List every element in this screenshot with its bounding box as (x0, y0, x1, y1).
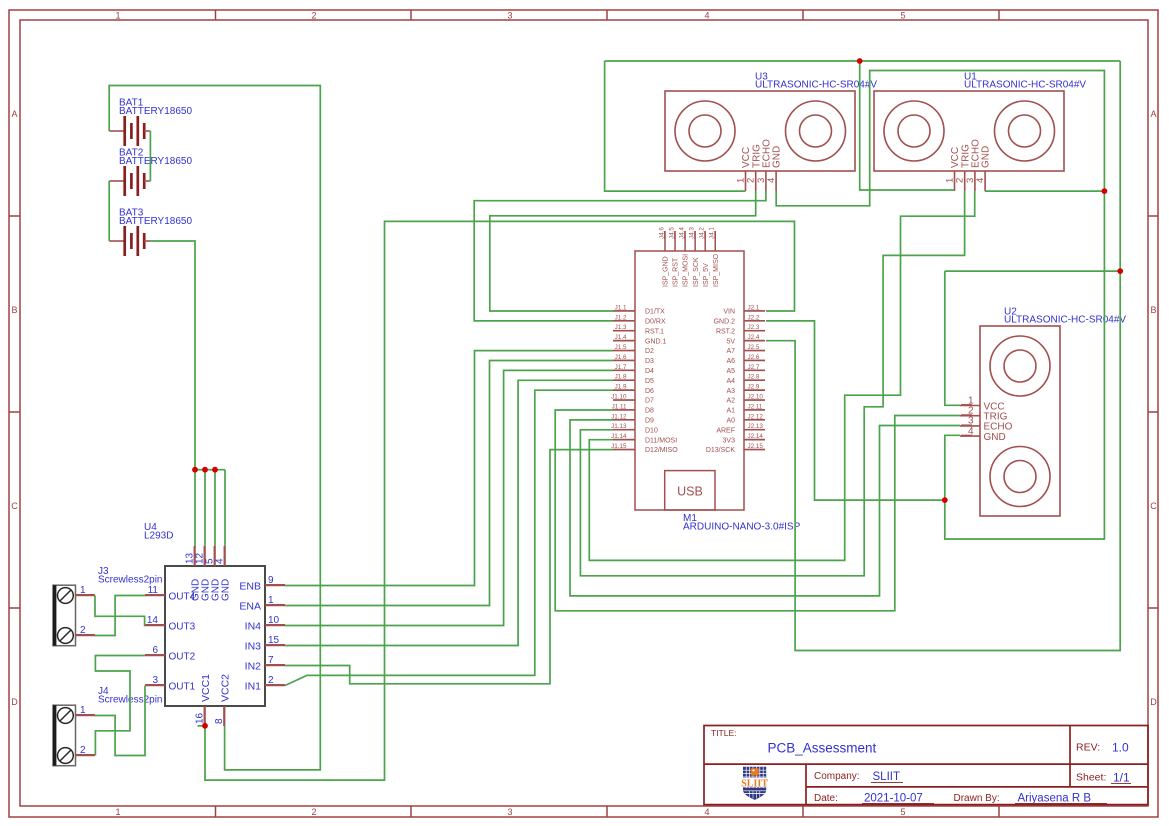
svg-text:1/1: 1/1 (1113, 771, 1130, 785)
svg-text:ISP_MISO: ISP_MISO (713, 253, 720, 287)
svg-text:TITLE:: TITLE: (711, 728, 737, 738)
svg-text:VIN: VIN (723, 309, 735, 316)
connector J3 Screwless2pin (53, 566, 162, 646)
svg-text:D6: D6 (645, 388, 654, 395)
svg-text:A5: A5 (726, 368, 735, 375)
wire U4 GND5 drop (214, 470, 216, 546)
svg-text:ULTRASONIC-HC-SR04#V: ULTRASONIC-HC-SR04#V (1004, 315, 1126, 326)
svg-text:3V3: 3V3 (723, 437, 736, 444)
svg-text:ISP_5V: ISP_5V (703, 263, 710, 287)
svg-text:D2: D2 (645, 348, 654, 355)
svg-text:D8: D8 (645, 408, 654, 415)
svg-text:GND: GND (981, 146, 992, 168)
svg-text:SLIIT: SLIIT (873, 771, 900, 783)
svg-text:IN3: IN3 (245, 640, 262, 652)
svg-text:A: A (1150, 109, 1156, 119)
svg-text:D9: D9 (645, 418, 654, 425)
junction net GND at U1 link (1102, 188, 1108, 194)
wire U4 GND13 drop (194, 470, 196, 546)
svg-text:1: 1 (115, 807, 120, 817)
wire net D6 to IN1 (285, 390, 613, 685)
svg-text:4: 4 (704, 11, 709, 21)
svg-text:ISP_MOSI: ISP_MOSI (683, 254, 690, 287)
svg-text:D10: D10 (645, 427, 658, 434)
svg-text:5: 5 (900, 11, 905, 21)
svg-text:BATTERY18650: BATTERY18650 (119, 216, 192, 227)
svg-text:GND: GND (220, 579, 231, 601)
svg-text:Date:: Date: (814, 793, 838, 804)
svg-text:D: D (1150, 697, 1157, 707)
wire net D1/TX to U3.TRIG (490, 191, 756, 311)
svg-text:L293D: L293D (144, 531, 173, 542)
svg-text:B: B (11, 305, 17, 315)
svg-text:REV:: REV: (1076, 742, 1100, 754)
svg-text:BATTERY18650: BATTERY18650 (119, 156, 192, 167)
svg-text:IN1: IN1 (245, 680, 262, 692)
junction BAT- GND13 (192, 467, 198, 473)
svg-text:USB: USB (677, 485, 703, 499)
svg-text:Sheet:: Sheet: (1076, 772, 1106, 784)
svg-text:ISP_GND: ISP_GND (663, 256, 670, 287)
svg-text:D0/RX: D0/RX (645, 319, 666, 326)
battery BAT1 (109, 98, 192, 147)
svg-text:OUT2: OUT2 (169, 651, 196, 662)
wire U4 GND4 drop (224, 470, 226, 546)
wire net D4 to IN4 (285, 370, 613, 625)
wire net VIN to VCC1 (205, 221, 795, 780)
wire OUT2 to J4.2 (95, 656, 145, 756)
svg-text:Ariyasena R B: Ariyasena R B (1018, 793, 1092, 805)
wire BAT1- to BAT2+ (149, 131, 151, 181)
microcontroller M1 ARDUINO-NANO-3.0#ISP (611, 227, 800, 533)
svg-text:ISP_SCK: ISP_SCK (693, 257, 700, 287)
svg-text:1.0: 1.0 (1112, 741, 1129, 755)
junction VCC1 node (202, 723, 208, 729)
SLIIT company logo (741, 767, 768, 800)
wire net D11/MOSI to U1.ECHO (589, 191, 974, 560)
wire net D12/MISO to IN2 (285, 450, 613, 684)
wire net D10 to U1.TRIG (580, 191, 964, 576)
svg-text:Drawn By:: Drawn By: (954, 793, 1000, 804)
svg-text:A3: A3 (726, 388, 735, 395)
svg-text:A4: A4 (726, 378, 735, 385)
svg-text:4: 4 (766, 178, 777, 183)
svg-text:D12/MISO: D12/MISO (645, 447, 678, 454)
svg-text:4: 4 (975, 178, 986, 183)
wire VCC1 node tick (198, 725, 205, 727)
wire net GND GND.2 link (766, 321, 945, 500)
svg-text:VCC1: VCC1 (200, 674, 212, 702)
wire net VCC left drop to U3.VCC (605, 61, 746, 191)
svg-text:3: 3 (507, 807, 512, 817)
svg-text:C: C (11, 501, 18, 511)
svg-text:AREF: AREF (716, 427, 735, 434)
svg-text:ISP_RST: ISP_RST (673, 257, 680, 287)
svg-text:A6: A6 (726, 358, 735, 365)
svg-text:OUT3: OUT3 (169, 621, 196, 632)
svg-text:A1: A1 (726, 408, 735, 415)
wire net D2 to ENB (285, 351, 613, 586)
svg-text:GND: GND (772, 146, 783, 168)
wire net D8 to U2.TRIG (555, 410, 960, 611)
wire net VCC branch to U1.VCC (860, 61, 955, 190)
wire net VCC U2.VCC drop (945, 271, 960, 405)
svg-text:2: 2 (311, 807, 316, 817)
svg-text:A: A (11, 109, 17, 119)
wire net VCC top bus (605, 60, 1121, 62)
wire U4 GND12 drop (204, 470, 206, 546)
svg-text:GND.2: GND.2 (714, 319, 736, 326)
svg-text:D5: D5 (645, 378, 654, 385)
ultrasonic sensor U1 ULTRASONIC-HC-SR04#V (874, 72, 1086, 192)
svg-text:Screwless2pin: Screwless2pin (98, 575, 162, 586)
svg-text:D13/SCK: D13/SCK (706, 447, 736, 454)
svg-text:5: 5 (900, 807, 905, 817)
svg-text:ENA: ENA (239, 600, 261, 612)
connector J4 Screwless2pin (53, 686, 162, 766)
svg-text:ENB: ENB (239, 580, 261, 592)
svg-text:4: 4 (704, 807, 709, 817)
svg-text:D4: D4 (645, 368, 654, 375)
wire net D3 to ENA (285, 361, 613, 606)
svg-text:A7: A7 (726, 348, 735, 355)
svg-text:3: 3 (507, 11, 512, 21)
wire U4 GND pin bus (195, 469, 225, 471)
svg-text:A0: A0 (726, 418, 735, 425)
junction net VCC at U1 branch (857, 58, 863, 64)
wire net VCC branch to U2.VCC (945, 270, 1120, 272)
wire BAT2- to BAT3+ (108, 181, 110, 241)
svg-text:IN2: IN2 (245, 660, 262, 672)
motor driver U4 L293D (144, 522, 285, 726)
svg-text:ARDUINO-NANO-3.0#ISP: ARDUINO-NANO-3.0#ISP (683, 522, 801, 533)
svg-text:GND: GND (984, 432, 1006, 443)
svg-text:SLIIT: SLIIT (741, 778, 768, 789)
svg-text:Company:: Company: (814, 771, 860, 782)
svg-text:2021-10-07: 2021-10-07 (864, 793, 923, 805)
svg-text:GND.1: GND.1 (645, 338, 667, 345)
svg-text:C: C (1150, 501, 1157, 511)
wire net BAT+ to VCC2 (109, 86, 320, 770)
svg-text:PCB_Assessment: PCB_Assessment (768, 741, 877, 756)
svg-text:ULTRASONIC-HC-SR04#V: ULTRASONIC-HC-SR04#V (964, 80, 1086, 91)
battery BAT2 (109, 148, 192, 197)
wire VCC1 node tick (198, 725, 205, 727)
wire net D0/RX to U3.ECHO (474, 191, 766, 321)
wire net VCC right drop (766, 61, 1120, 651)
junction BAT- GND12 (202, 467, 208, 473)
svg-text:5V: 5V (726, 338, 735, 345)
wire J3.1 to OUT3 (95, 596, 145, 626)
svg-text:D: D (11, 697, 18, 707)
title block (704, 726, 1148, 805)
wire net GND U3.GND riser (776, 71, 1104, 540)
junction net VCC at U2 branch (1117, 268, 1123, 274)
junction BAT- GND5 (212, 467, 218, 473)
wire OUT1 to J4.1 (95, 686, 145, 756)
junction net GND at U2 branch (942, 497, 948, 503)
svg-text:B: B (1150, 305, 1156, 315)
svg-text:OUT1: OUT1 (169, 681, 196, 692)
wire net GND U1.GND link (985, 190, 1105, 192)
ultrasonic sensor U3 ULTRASONIC-HC-SR04#V (665, 72, 877, 192)
svg-text:D1/TX: D1/TX (645, 309, 665, 316)
svg-text:RST.1: RST.1 (645, 328, 664, 335)
svg-text:VCC2: VCC2 (219, 674, 231, 702)
wire OUT4 to J3.2 (95, 596, 145, 636)
svg-text:D7: D7 (645, 398, 654, 405)
wire net BAT- to U4 GND pins (150, 241, 195, 470)
battery BAT3 (109, 208, 192, 257)
svg-text:1: 1 (115, 11, 120, 21)
svg-text:D3: D3 (645, 358, 654, 365)
wire net D9 to U2.ECHO (570, 420, 960, 596)
svg-text:RST.2: RST.2 (716, 328, 735, 335)
svg-text:IN4: IN4 (245, 620, 262, 632)
svg-text:BATTERY18650: BATTERY18650 (119, 106, 192, 117)
svg-text:2: 2 (311, 11, 316, 21)
svg-text:A2: A2 (726, 398, 735, 405)
ultrasonic sensor U2 ULTRASONIC-HC-SR04#V (960, 307, 1126, 517)
wire net D5 to IN3 (285, 380, 613, 645)
svg-text:D11/MOSI: D11/MOSI (645, 437, 677, 444)
